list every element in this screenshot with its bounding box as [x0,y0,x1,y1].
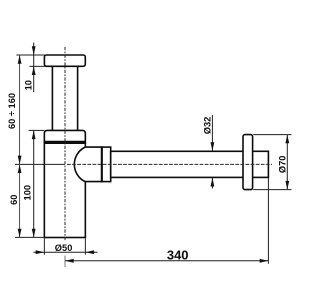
dim line 340 [65,260,268,262]
arrow Ø70 bottom (down) [285,181,289,190]
dim line Ø32 [211,115,213,189]
dim line Ø70 [286,135,288,190]
centerlines [65,47,272,267]
arrow Ø50 left (right-pointing) [36,250,45,254]
extension line body bottom [15,236,44,238]
extension line flange top [16,54,45,56]
svg-text:60 ÷ 160: 60 ÷ 160 [7,93,17,129]
extension lines Ø70 [253,135,291,190]
arrow 10 bottom (up) [32,66,36,75]
arrow 100 bottom (down) [32,229,36,238]
arrow Ø50 right (left-pointing) [85,250,94,254]
svg-text:Ø32: Ø32 [202,117,212,135]
arrow 100 top (up) [32,130,36,139]
arrow Ø32 bottom (up) [211,178,215,187]
horizontal centerline [67,163,272,165]
inlet tube [52,66,77,130]
arrow 340 right (right-pointing) [260,259,269,263]
dim line 100 [33,130,35,237]
svg-text:10: 10 [23,80,33,90]
extension line outlet centerline left [15,163,65,165]
dim line Ø50 [34,251,98,253]
elbow [74,147,101,182]
extension line tube end for 340 [267,178,269,264]
svg-text:340: 340 [167,247,189,262]
collar nut [44,130,85,143]
arrow Ø32 top (down) [211,142,215,151]
outlet nut [102,147,111,182]
arrow Ø70 top (up) [285,135,289,144]
outlet nut left thick edge [101,147,103,182]
arrow 340 left (left-pointing) [65,259,74,263]
extension lines Ø50 [44,238,85,255]
extension line collar top [29,129,45,131]
arrow 10 top (down) [32,46,36,55]
svg-text:60: 60 [9,195,19,205]
svg-text:Ø50: Ø50 [55,243,73,253]
svg-text:Ø70: Ø70 [278,156,288,174]
outlet tube [111,151,269,177]
dim line 60÷160 and 60 [19,55,21,237]
vertical centerline extension below for 340 [64,256,66,268]
arrow 60 top (up) [18,164,22,173]
extension line flange bottom [30,65,46,67]
body [44,143,85,237]
dim line 10 [33,43,35,93]
collar bottom thick line [44,141,85,144]
vertical centerline [64,47,66,242]
arrow 60 bottom (down) [18,229,22,238]
wall flange [243,135,253,190]
top flange [44,55,85,66]
svg-text:100: 100 [22,185,32,201]
arrow 60÷160 bottom (down) [18,156,22,165]
arrow 60÷160 top (up) [18,55,22,64]
